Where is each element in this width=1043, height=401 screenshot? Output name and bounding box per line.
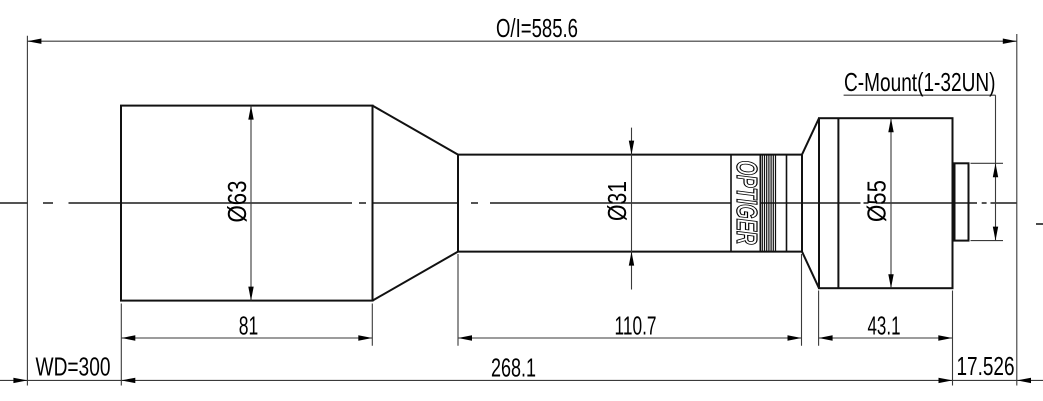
svg-text:81: 81 [239,310,258,340]
O/I arrows [27,39,41,44]
front cylinder body D63 [121,106,373,301]
svg-text:110.7: 110.7 [615,311,657,341]
extension line right [1016,34,1018,386]
knurling hatch [762,155,775,252]
svg-text:WD=300: WD=300 [36,351,111,381]
focus ring boundaries [731,155,787,252]
svg-text:Ø63: Ø63 [222,181,252,223]
svg-text:17.526: 17.526 [957,351,1015,381]
43.1 arrows [819,335,833,340]
taper cone front [373,106,459,301]
bottom arrows [13,378,27,383]
svg-text:O/I=585.6: O/I=585.6 [496,13,578,43]
middle tube D31 [458,155,802,252]
taper cone rear [802,118,819,288]
centerline [0,202,1017,204]
D63 dimension line [250,106,252,301]
mid dimension lines 81 / 110.7 / 43.1 [121,337,952,339]
extension lines mid [121,254,952,386]
bottom dimension line WD / 268.1 / 17.526 [0,379,1043,381]
svg-text:C-Mount(1-32UN): C-Mount(1-32UN) [844,67,996,97]
rear cylinder D55 [819,118,953,288]
stub extension lines [971,163,1004,240]
svg-text:Ø31: Ø31 [602,181,632,221]
svg-text:43.1: 43.1 [868,311,901,341]
svg-text:268.1: 268.1 [491,353,536,383]
C-mount dimension line + leader [844,95,996,240]
image plane tick [1036,223,1043,225]
extension line left [26,36,28,386]
D55 dimension line [890,118,892,288]
D31 arrows [629,141,634,155]
D31 dimension line [631,128,633,290]
C-mount stub [955,163,969,240]
D63 arrows [248,106,253,120]
svg-text:Ø55: Ø55 [862,180,892,222]
110.7 arrows [458,335,472,340]
D55 arrows [888,118,893,132]
O/I dimension line [27,40,1016,42]
svg-text:OPTIGER: OPTIGER [730,161,762,245]
C-mount arrows [993,163,998,177]
81 arrows [121,335,135,340]
